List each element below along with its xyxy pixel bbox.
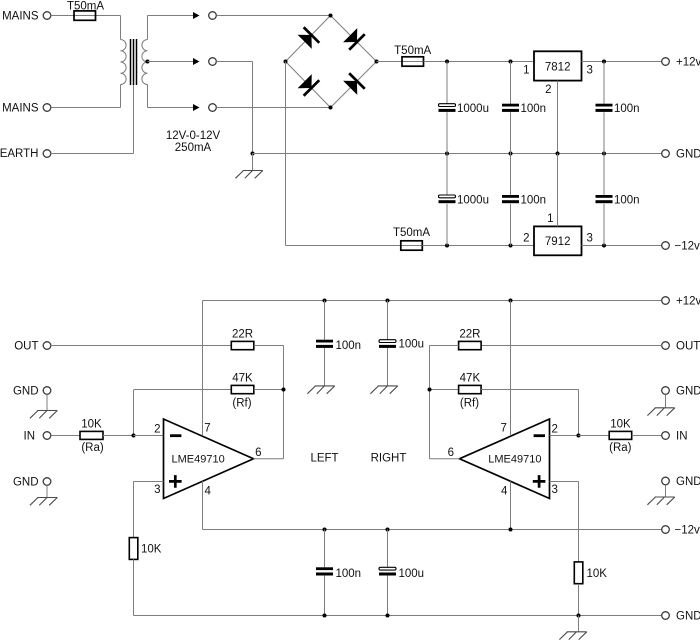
terminal connector secondary bottom — [209, 104, 217, 112]
wire GND right upper stub — [665, 394, 667, 408]
wire feedback vertical left — [283, 346, 285, 459]
wire 10K left to bottom rail — [133, 559, 135, 615]
wire secondary top up — [147, 16, 149, 40]
wire pin6 left to feedback vertical — [254, 458, 284, 460]
wire +rail to capacitor C2 — [510, 62, 512, 104]
svg-text:LME49710: LME49710 — [172, 454, 225, 466]
svg-text:2: 2 — [545, 84, 551, 96]
wire MAINS bottom to transformer — [51, 107, 121, 109]
svg-text:4: 4 — [501, 486, 508, 498]
svg-text:−12v: −12v — [675, 241, 700, 253]
terminal GND (amp bottom) — [662, 612, 670, 620]
junction -rail C5 — [509, 244, 513, 248]
svg-text:3: 3 — [552, 484, 558, 496]
wire connector to ground drop — [216, 61, 252, 63]
junction +rail C1 — [445, 60, 449, 64]
wire capacitor C1 to gnd rail — [446, 112, 448, 153]
junction +12v rail C8 — [386, 299, 390, 303]
junction -12v rail C9 — [323, 528, 327, 532]
wire input node to pin2 left — [134, 435, 164, 437]
svg-text:100n: 100n — [336, 340, 362, 352]
junction -rail C4 — [445, 244, 449, 248]
wire through fuse F3 — [401, 245, 423, 247]
svg-text:+12v: +12v — [676, 296, 700, 308]
wire -12v rail to C9 — [324, 530, 326, 568]
terminal GND (psu) — [662, 150, 670, 158]
wire bridge plus to fuse F2 — [377, 61, 403, 63]
wire GND left lower stub — [46, 485, 48, 497]
junction bridge plus node — [375, 60, 379, 64]
diode D1 (bridge top-left) — [297, 27, 319, 49]
wire center tap to connector — [148, 61, 194, 63]
wire 7812 pin2 to ground rail — [557, 81, 559, 154]
capacitor C3 100n — [596, 104, 613, 112]
wire +rail to capacitor C3 — [603, 62, 605, 104]
svg-text:GND: GND — [676, 385, 700, 397]
svg-text:GND: GND — [676, 149, 700, 161]
svg-text:2: 2 — [154, 423, 160, 435]
terminal GND left lower — [43, 478, 51, 486]
svg-text:1: 1 — [547, 213, 553, 225]
wire pin3 right — [550, 481, 579, 483]
junction gnd rail C1/C4 — [445, 152, 449, 156]
wire stub to bottom ground symbol — [578, 616, 580, 632]
ground GND left lower — [30, 498, 57, 506]
capacitor C1 1000u — [439, 104, 456, 112]
svg-text:3: 3 — [587, 233, 593, 245]
ground psu — [235, 171, 262, 179]
wire fuse F3 to 7912 input — [422, 245, 534, 247]
wire through fuse F1 — [74, 15, 97, 17]
junction feedback left — [282, 388, 286, 392]
wire input node to Ra right — [579, 435, 610, 437]
ground bottom rail — [559, 632, 586, 640]
terminal MAINS top — [43, 12, 51, 20]
resistor 10K Ra right — [609, 431, 632, 439]
svg-text:100n: 100n — [521, 195, 547, 207]
wire pin3 left — [134, 481, 164, 483]
junction bottom rail C10 — [386, 614, 390, 618]
junction -12v rail pin4 right — [509, 528, 513, 532]
svg-text:GND: GND — [676, 476, 700, 488]
terminal OUT right — [662, 342, 670, 350]
wire connector to bridge bottom node — [216, 107, 330, 109]
junction -12v rail C10 — [386, 528, 390, 532]
svg-text:250mA: 250mA — [175, 142, 212, 154]
svg-text:1000u: 1000u — [457, 103, 489, 115]
svg-text:7: 7 — [204, 423, 210, 435]
wire +12v rail to C7 — [324, 301, 326, 340]
op-amp U4 LME49710 right — [460, 419, 550, 499]
wire 7812 output to +12v terminal — [582, 61, 662, 63]
wire down to primary winding top — [120, 16, 122, 40]
capacitor C2 100n — [502, 104, 519, 112]
svg-text:GND: GND — [13, 476, 39, 488]
op-amp U3 LME49710 left — [164, 419, 254, 499]
junction bridge bottom node — [329, 106, 333, 110]
diode D3 (bridge bottom-left) — [297, 73, 319, 95]
terminal GND left upper — [43, 387, 51, 395]
wire feedback vertical right — [429, 346, 431, 459]
svg-text:100n: 100n — [521, 103, 547, 115]
svg-text:22R: 22R — [459, 328, 480, 340]
wire fuse F2 to 7812 input — [424, 61, 535, 63]
svg-text:EARTH: EARTH — [0, 148, 39, 160]
junction bottom rail ground point — [577, 614, 581, 618]
wire pin3 left down to 10K — [133, 482, 135, 538]
wire C9 to bottom rail — [324, 576, 326, 616]
wire 22R right to OUT right — [481, 345, 662, 347]
wire pin4 left to -12v rail — [202, 481, 204, 529]
wire bridge edge top-left — [286, 16, 331, 62]
regulator U2 7912 — [534, 226, 582, 255]
wire 22R left to feedback drop — [254, 345, 284, 347]
resistor 22R left — [231, 341, 254, 349]
arrow connector center tap — [193, 58, 200, 65]
wire MAINS top to fuse F1 — [51, 15, 74, 17]
svg-text:1: 1 — [523, 65, 529, 77]
svg-text:(Rf): (Rf) — [232, 397, 251, 409]
ground GND right lower — [647, 497, 674, 505]
diode D2 (bridge top-right) — [342, 27, 364, 49]
wire pin7 left from +12v rail — [202, 301, 204, 436]
wire capacitor C3 to gnd rail — [603, 112, 605, 153]
svg-text:47K: 47K — [460, 373, 481, 385]
wire capacitor C4 to -rail — [446, 204, 448, 246]
junction +rail C2 — [509, 60, 513, 64]
wire pin7 right from +12v rail — [510, 301, 512, 436]
svg-text:4: 4 — [205, 486, 212, 498]
resistor 10K left (to ground rail) — [129, 538, 138, 560]
junction gnd rail C2/C5 — [509, 152, 513, 156]
wire feedback vertical to 47K right — [430, 389, 459, 391]
wire 47K left to input node drop — [134, 389, 231, 391]
junction center tap — [146, 60, 150, 64]
wire through fuse F2 — [402, 61, 424, 63]
wire EARTH terminal to transformer core — [51, 153, 134, 155]
wire GND left upper stub — [46, 394, 48, 410]
wire gnd rail to capacitor C4 — [446, 154, 448, 196]
svg-text:T50mA: T50mA — [393, 227, 430, 239]
wire gnd rail to capacitor C5 — [510, 154, 512, 196]
svg-text:RIGHT: RIGHT — [371, 453, 407, 465]
junction input node left — [132, 434, 136, 438]
wire bridge edge bottom-left — [286, 62, 331, 108]
wire secondary bottom down — [147, 85, 149, 108]
svg-text:2: 2 — [523, 233, 529, 245]
wire feedback drop to 22R right — [430, 345, 459, 347]
diode D4 (bridge bottom-right) — [342, 73, 364, 95]
regulator U1 7812 — [534, 51, 582, 80]
wire center tap down to ground rail — [252, 62, 254, 154]
wire 47K right to input node drop — [481, 389, 578, 391]
ground GND left upper — [30, 411, 57, 419]
terminal connector center tap — [209, 58, 217, 66]
svg-text:MAINS: MAINS — [2, 11, 39, 23]
wire bottom ground rail — [134, 615, 662, 617]
wire C10 to bottom rail — [387, 576, 389, 616]
wire ground rail — [253, 153, 662, 155]
svg-text:22R: 22R — [232, 328, 253, 340]
svg-text:LME49710: LME49710 — [488, 454, 541, 466]
svg-text:47K: 47K — [232, 373, 253, 385]
arrow connector secondary bottom — [193, 104, 200, 111]
svg-text:6: 6 — [448, 447, 454, 459]
svg-text:100n: 100n — [614, 103, 640, 115]
svg-text:10K: 10K — [610, 419, 631, 431]
capacitor C6 100n — [596, 195, 613, 203]
svg-text:7912: 7912 — [545, 236, 571, 248]
wire pin3 right down to 10K — [578, 482, 580, 562]
ground GND right upper — [647, 408, 674, 416]
svg-text:LEFT: LEFT — [310, 453, 338, 465]
terminal IN left — [43, 432, 51, 440]
svg-text:100n: 100n — [336, 568, 362, 580]
svg-text:T50mA: T50mA — [394, 45, 431, 57]
wire bridge edge top-right — [331, 16, 377, 62]
terminal MAINS bottom — [43, 104, 51, 112]
junction +12v rail C7 — [323, 299, 327, 303]
svg-text:IN: IN — [24, 430, 36, 442]
junction gnd rail regulators — [556, 152, 560, 156]
transformer T1 core — [131, 39, 137, 85]
transformer T1 secondary winding — [142, 40, 148, 85]
svg-text:−12v: −12v — [675, 525, 700, 537]
wire 7912 output to -12v terminal — [582, 245, 662, 247]
wire GND right lower stub — [665, 485, 667, 497]
wire gnd rail to capacitor C6 — [603, 154, 605, 196]
capacitor C8 100u — [379, 340, 396, 348]
wire secondary bottom to connector — [148, 107, 194, 109]
wire 47K left to feedback vertical — [254, 389, 284, 391]
wire OUT left to 22R — [51, 345, 232, 347]
wire input node up-leg left — [133, 390, 135, 436]
resistor 10K Ra left — [80, 431, 103, 439]
wire pin6 right to feedback vertical — [430, 458, 460, 460]
svg-text:GND: GND — [13, 385, 39, 397]
fuse F3 T50mA (- rail) — [401, 241, 423, 250]
capacitor C10 100u — [379, 567, 396, 575]
svg-text:+12v: +12v — [676, 57, 700, 69]
wire bridge minus to fuse F3 — [286, 245, 401, 247]
wire Ra left to input node — [103, 435, 134, 437]
resistor 10K right (to ground rail) — [574, 562, 583, 584]
junction +rail C3 — [602, 60, 606, 64]
terminal OUT left — [43, 342, 51, 350]
wire connector to bridge top node — [216, 15, 330, 17]
wire IN left to 10K Ra — [51, 435, 80, 437]
wire pin2 right to input node — [550, 435, 579, 437]
svg-text:2: 2 — [552, 423, 558, 435]
wire +12v rail to C8 — [387, 301, 389, 340]
terminal EARTH — [43, 150, 51, 158]
junction bridge top node — [329, 14, 333, 18]
svg-text:100n: 100n — [614, 195, 640, 207]
resistor 47K right (Rf) — [459, 385, 482, 393]
wire -12v rail to C10 — [387, 530, 389, 568]
wire +12v rail (amp) — [203, 300, 662, 302]
junction bridge minus node — [284, 60, 288, 64]
junction feedback right — [428, 388, 432, 392]
wire capacitor C5 to -rail — [510, 204, 512, 246]
wire pin4 right to -12v rail — [510, 481, 512, 529]
terminal +12v (amp) — [662, 297, 670, 305]
svg-text:3: 3 — [587, 65, 593, 77]
resistor 47K left (Rf) — [231, 385, 254, 393]
terminal GND right lower — [662, 477, 670, 485]
svg-text:10K: 10K — [141, 544, 162, 556]
wire 7912 pin1 to ground rail — [557, 154, 559, 227]
wire input node up-leg right — [578, 390, 580, 436]
capacitor C9 100n — [316, 567, 333, 575]
wire stub to psu ground symbol — [252, 154, 254, 171]
terminal +12v (psu) — [662, 58, 670, 66]
terminal connector secondary top — [209, 12, 217, 20]
fuse F1 T50mA (mains) — [74, 11, 96, 20]
svg-text:6: 6 — [255, 447, 261, 459]
junction ground rail / center tap — [251, 152, 255, 156]
transformer T1 primary winding — [121, 40, 127, 85]
svg-text:(Ra): (Ra) — [609, 442, 632, 454]
svg-text:GND: GND — [676, 610, 700, 622]
capacitor C5 100n — [502, 195, 519, 203]
arrow connector secondary top — [193, 12, 200, 19]
capacitor C4 1000u — [439, 195, 456, 203]
terminal -12v (psu) — [662, 242, 670, 250]
ground C7 — [307, 386, 334, 394]
svg-text:100u: 100u — [399, 568, 425, 580]
svg-text:3: 3 — [154, 484, 160, 496]
wire primary winding bottom down — [120, 85, 122, 108]
capacitor C7 100n — [316, 340, 333, 348]
wire C8 to ground — [387, 348, 389, 386]
junction gnd rail C3/C6 — [602, 152, 606, 156]
svg-text:OUT: OUT — [14, 340, 38, 352]
svg-text:7: 7 — [500, 423, 506, 435]
junction +12v rail pin7 right — [509, 299, 513, 303]
svg-text:12V-0-12V: 12V-0-12V — [166, 130, 221, 142]
wire Ra right to IN right — [632, 435, 662, 437]
resistor 22R right — [459, 341, 482, 349]
ground C8 — [370, 386, 397, 394]
svg-text:MAINS: MAINS — [2, 103, 39, 115]
wire secondary top to connector — [148, 15, 194, 17]
svg-text:(Ra): (Ra) — [81, 442, 104, 454]
svg-text:10K: 10K — [81, 419, 102, 431]
svg-text:1000u: 1000u — [457, 195, 489, 207]
wire C7 to ground — [324, 348, 326, 386]
wire 10K right to bottom rail — [578, 584, 580, 616]
terminal GND right upper — [662, 387, 670, 395]
wire +rail to capacitor C1 — [446, 62, 448, 104]
junction -rail C6 — [602, 244, 606, 248]
wire bridge minus down to -12v rail — [285, 62, 287, 246]
junction input node right — [577, 434, 581, 438]
terminal -12v (amp) — [662, 526, 670, 534]
svg-text:OUT: OUT — [676, 340, 700, 352]
svg-text:10K: 10K — [587, 568, 608, 580]
terminal IN right — [662, 432, 670, 440]
svg-text:(Rf): (Rf) — [460, 397, 479, 409]
svg-text:IN: IN — [676, 430, 688, 442]
wire capacitor C2 to gnd rail — [510, 112, 512, 153]
wire fuse F1 to transformer primary top — [97, 15, 121, 17]
fuse F2 T50mA (+ rail) — [402, 57, 424, 66]
wire -12v rail (amp) — [203, 529, 662, 531]
wire capacitor C6 to -rail — [603, 204, 605, 246]
svg-text:100u: 100u — [399, 339, 425, 351]
wire transformer core to earth — [133, 85, 135, 154]
wire bridge edge bottom-right — [331, 62, 377, 108]
junction bottom rail C9 — [323, 614, 327, 618]
svg-text:7812: 7812 — [545, 61, 571, 73]
